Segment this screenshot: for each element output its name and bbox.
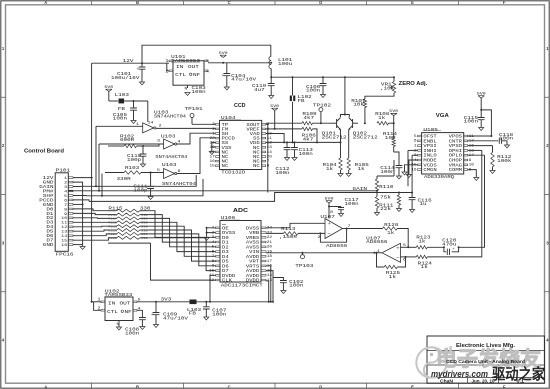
svg-text:4u7: 4u7 (254, 87, 265, 93)
svg-text:VGA: VGA (436, 113, 450, 119)
svg-text:Control Board: Control Board (24, 149, 65, 155)
svg-text:TCD132D: TCD132D (221, 170, 245, 176)
svg-text:U105: U105 (423, 127, 438, 133)
svg-text:CCD: CCD (234, 103, 246, 109)
svg-text:100n: 100n (499, 136, 513, 142)
svg-text:4k7: 4k7 (303, 115, 314, 121)
svg-text:CTL: CTL (107, 309, 118, 315)
svg-text:1k: 1k (389, 274, 396, 280)
svg-text:FB: FB (189, 311, 196, 317)
svg-text:1k: 1k (387, 230, 394, 236)
svg-text:20: 20 (267, 246, 272, 250)
svg-text:16: 16 (411, 169, 416, 173)
svg-text:14: 14 (267, 274, 272, 278)
svg-text:1k: 1k (421, 264, 428, 270)
svg-text:15: 15 (210, 165, 215, 169)
svg-text:15: 15 (267, 269, 272, 273)
svg-text:FB: FB (118, 106, 125, 112)
svg-text:2: 2 (212, 128, 215, 132)
svg-text:TP102: TP102 (313, 102, 331, 108)
svg-text:E: E (411, 384, 414, 389)
svg-text:+: + (222, 75, 225, 79)
svg-text:330R: 330R (117, 176, 131, 182)
svg-text:U107: U107 (320, 214, 335, 220)
svg-text:E: E (411, 0, 414, 5)
svg-text:3: 3 (414, 154, 417, 158)
svg-text:13: 13 (61, 231, 68, 235)
svg-text:CLK: CLK (222, 278, 232, 284)
svg-text:10: 10 (469, 164, 474, 168)
svg-text:N: N (185, 88, 188, 92)
svg-text:100n: 100n (380, 169, 394, 175)
svg-text:TP103: TP103 (295, 263, 313, 269)
svg-text:ChaN: ChaN (440, 378, 454, 383)
svg-text:6: 6 (414, 140, 417, 144)
svg-text:470u: 470u (442, 241, 456, 247)
svg-text:OUT: OUT (188, 64, 199, 70)
svg-text:100n: 100n (306, 88, 320, 94)
svg-text:驱动之家: 驱动之家 (492, 365, 545, 383)
svg-text:NF: NF (193, 72, 200, 78)
svg-text:600R: 600R (120, 137, 134, 143)
svg-text:−: − (327, 232, 331, 237)
svg-text:AD8656: AD8656 (326, 243, 347, 249)
svg-text:P101: P101 (56, 168, 71, 174)
svg-text:+: + (396, 247, 400, 252)
svg-text:4: 4 (212, 241, 215, 245)
svg-text:GND: GND (43, 242, 54, 248)
svg-text:R116: R116 (108, 214, 117, 217)
svg-text:6: 6 (212, 251, 215, 255)
svg-text:B: B (136, 0, 139, 5)
svg-text:A: A (44, 384, 47, 389)
svg-text:C: C (228, 0, 231, 5)
svg-text:U104: U104 (221, 115, 236, 121)
svg-text:R118: R118 (108, 222, 117, 225)
svg-text:100n: 100n (212, 311, 226, 317)
svg-text:TP101: TP101 (185, 106, 203, 112)
svg-text:17: 17 (210, 155, 215, 159)
svg-text:+: + (327, 222, 331, 227)
svg-text:U103: U103 (162, 162, 177, 168)
svg-text:100n: 100n (125, 330, 139, 336)
svg-text:2: 2 (212, 232, 215, 236)
svg-text:16: 16 (61, 244, 68, 248)
svg-text:COMM: COMM (449, 167, 463, 173)
svg-text:100p: 100p (127, 157, 141, 163)
svg-text:+: + (137, 68, 140, 72)
svg-text:R119: R119 (108, 226, 117, 229)
svg-text:75k: 75k (380, 195, 391, 201)
svg-text:4k7: 4k7 (303, 136, 314, 142)
svg-text:100u: 100u (278, 61, 292, 67)
svg-text:+: + (151, 313, 154, 317)
svg-text:OUT: OUT (120, 300, 131, 306)
svg-text:D: D (319, 0, 322, 5)
svg-text:11: 11 (61, 222, 68, 226)
svg-text:D: D (319, 384, 322, 389)
svg-text:100n: 100n (275, 170, 289, 176)
svg-text:R120: R120 (108, 229, 117, 232)
svg-text:9: 9 (469, 159, 472, 163)
svg-text:5: 5 (212, 246, 215, 250)
svg-text:1: 1 (212, 227, 215, 231)
svg-text:R113: R113 (281, 226, 295, 232)
svg-text:100n: 100n (345, 201, 359, 207)
svg-text:100n: 100n (113, 115, 127, 121)
svg-text:10: 10 (61, 217, 68, 221)
svg-text:U106: U106 (221, 215, 236, 221)
svg-text:L103: L103 (115, 92, 129, 98)
svg-text:15: 15 (61, 240, 68, 244)
svg-text:AD8330ARQ: AD8330ARQ (424, 174, 454, 180)
svg-text:U103: U103 (161, 133, 176, 139)
svg-text:1: 1 (212, 132, 215, 136)
svg-text:8: 8 (469, 169, 472, 173)
svg-text:IN: IN (108, 300, 115, 306)
svg-text:CMGN: CMGN (423, 167, 437, 173)
svg-text:NC: NC (222, 163, 229, 169)
svg-text:R110: R110 (379, 184, 393, 190)
svg-text:CCD Camera Unit - Analog Board: CCD Camera Unit - Analog Board (446, 359, 525, 364)
svg-text:100n: 100n (289, 283, 303, 289)
svg-text:1k: 1k (326, 166, 333, 172)
svg-text:FB: FB (298, 98, 305, 104)
svg-text:47u/10V: 47u/10V (231, 77, 256, 83)
svg-text:5: 5 (414, 135, 417, 139)
svg-text:GAIN: GAIN (353, 186, 368, 192)
svg-text:C: C (228, 384, 231, 389)
svg-text:11: 11 (469, 135, 474, 139)
svg-text:DVDD: DVDD (246, 278, 260, 284)
svg-text:2: 2 (414, 149, 417, 153)
svg-text:R103: R103 (125, 165, 139, 171)
svg-text:SN74AHCT04: SN74AHCT04 (155, 154, 187, 160)
svg-text:14: 14 (469, 154, 474, 158)
svg-text:mydrivers.com: mydrivers.com (431, 369, 488, 379)
svg-text:,150R: ,150R (279, 234, 297, 240)
svg-text:IN: IN (176, 64, 183, 70)
svg-text:FPC16: FPC16 (56, 252, 74, 258)
svg-text:R122: R122 (108, 237, 117, 240)
svg-text:R126: R126 (384, 222, 398, 228)
svg-text:16: 16 (267, 265, 272, 269)
svg-text:100k: 100k (497, 158, 511, 164)
svg-text:3V3: 3V3 (161, 296, 172, 302)
svg-text:14: 14 (148, 122, 155, 126)
svg-text:R121: R121 (108, 233, 117, 236)
svg-text:NF: NF (125, 309, 132, 315)
svg-text:100u/16V: 100u/16V (111, 75, 140, 81)
svg-text:15: 15 (411, 164, 416, 168)
svg-text:2SC2712: 2SC2712 (353, 134, 378, 140)
svg-text:100n: 100n (464, 119, 478, 125)
svg-text:+: + (452, 247, 454, 251)
svg-text:ZERO Adj.: ZERO Adj. (399, 81, 428, 87)
svg-text:Electronic Lives Mfg.: Electronic Lives Mfg. (456, 343, 516, 349)
svg-text:7: 7 (212, 255, 215, 259)
svg-text:9: 9 (212, 265, 215, 269)
svg-text:1u: 1u (420, 201, 427, 207)
svg-text:B: B (136, 384, 139, 389)
svg-text:,10k: ,10k (380, 86, 394, 92)
svg-text:100n: 100n (192, 89, 206, 95)
svg-text:1k: 1k (378, 115, 385, 121)
svg-text:1k: 1k (418, 238, 425, 244)
svg-text:AD8656: AD8656 (366, 239, 387, 245)
svg-text:16: 16 (210, 160, 215, 164)
svg-text:A: A (44, 0, 47, 5)
svg-text:22k: 22k (380, 206, 391, 212)
svg-text:NC: NC (253, 163, 260, 169)
svg-text:24: 24 (267, 227, 272, 231)
svg-text:16: 16 (469, 145, 474, 149)
svg-text:13: 13 (469, 149, 474, 153)
svg-text:14: 14 (61, 235, 68, 239)
svg-text:SN74AHCT04: SN74AHCT04 (154, 114, 186, 120)
svg-text:8: 8 (212, 260, 215, 264)
svg-text:−: − (396, 256, 400, 261)
svg-text:100n: 100n (299, 151, 313, 157)
svg-text:22: 22 (210, 137, 215, 141)
svg-text:1k: 1k (358, 166, 365, 172)
svg-text:3: 3 (212, 123, 215, 127)
svg-text:R117: R117 (108, 218, 117, 221)
svg-text:ADC: ADC (233, 208, 249, 214)
svg-text:2SC2712: 2SC2712 (322, 134, 347, 140)
svg-text:CTL: CTL (175, 72, 186, 78)
svg-text:F: F (503, 384, 506, 389)
svg-text:12: 12 (469, 140, 474, 144)
svg-text:10: 10 (209, 269, 214, 273)
svg-text:22: 22 (267, 236, 272, 240)
svg-text:21: 21 (267, 241, 272, 245)
svg-text:1: 1 (414, 145, 417, 149)
svg-text:TAR5S050: TAR5S050 (171, 58, 200, 64)
svg-text:47u/10V: 47u/10V (163, 315, 188, 321)
svg-text:17: 17 (267, 260, 272, 264)
svg-text:12V: 12V (123, 58, 134, 64)
svg-text:10R: 10R (385, 135, 396, 141)
svg-text:18: 18 (267, 255, 272, 259)
svg-text:100p: 100p (133, 187, 147, 193)
svg-text:4: 4 (414, 159, 417, 163)
svg-text:3: 3 (212, 236, 215, 240)
svg-text:F: F (503, 0, 506, 5)
svg-text:::▐: ::▐ (443, 346, 452, 356)
svg-text:12: 12 (61, 226, 68, 230)
svg-text:TAR5SB33: TAR5SB33 (104, 292, 132, 298)
svg-text:10k: 10k (353, 102, 364, 108)
